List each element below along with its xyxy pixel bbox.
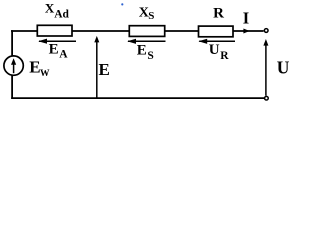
arrow U right phasor	[263, 39, 268, 96]
node E phasor arrow	[94, 36, 99, 98]
wire left vertical upper	[11, 30, 13, 56]
wire left vertical lower	[11, 75, 13, 99]
svg-text:R: R	[220, 50, 229, 62]
arrow E_A under X_Ad	[38, 39, 76, 44]
wire top-left horizontal	[11, 30, 38, 32]
resistor R box	[199, 26, 234, 37]
wire top between X_S and R	[165, 30, 199, 32]
svg-text:S: S	[147, 50, 153, 62]
reactance X_Ad box	[37, 25, 72, 36]
svg-text:Ad: Ad	[54, 8, 69, 20]
wire bottom horizontal	[11, 97, 264, 99]
svg-text:S: S	[148, 10, 154, 22]
svg-text:U: U	[209, 42, 220, 58]
source U1 arrow	[11, 58, 16, 73]
svg-text:E: E	[99, 60, 110, 79]
svg-text:A: A	[59, 49, 68, 61]
arrow U_R under R	[198, 39, 235, 44]
arrow E_S under X_S	[127, 39, 165, 44]
terminal node bottom circle	[265, 96, 269, 100]
source U1 circle (EMF source E_W)	[4, 56, 23, 75]
svg-text:U: U	[277, 58, 290, 78]
stray blue dot	[121, 3, 123, 5]
arrow I current on wire	[243, 29, 249, 34]
reactance X_S box	[129, 26, 164, 37]
svg-text:E: E	[29, 58, 40, 77]
svg-text:W: W	[40, 69, 50, 79]
wire top right to terminal	[233, 30, 264, 32]
svg-text:I: I	[243, 8, 249, 27]
wire top between X_Ad and X_S	[72, 30, 130, 32]
svg-text:R: R	[213, 6, 224, 22]
svg-text:E: E	[49, 42, 59, 58]
svg-text:E: E	[137, 43, 147, 59]
terminal node top circle	[264, 29, 268, 33]
